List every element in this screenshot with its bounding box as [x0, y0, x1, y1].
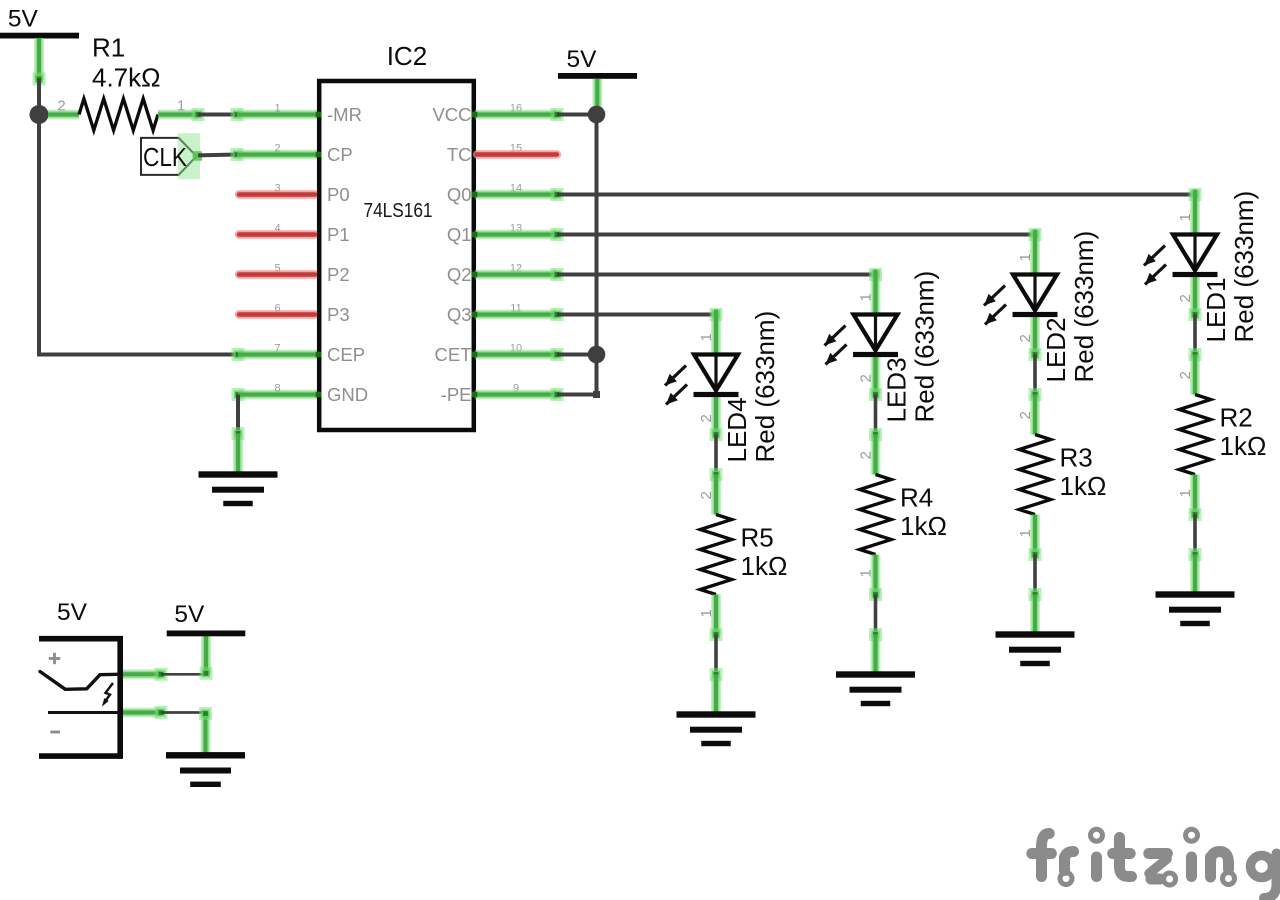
svg-text:GND: GND — [327, 384, 368, 405]
svg-text:P2: P2 — [327, 264, 350, 285]
svg-text:1: 1 — [698, 333, 715, 341]
svg-text:IC2: IC2 — [387, 41, 427, 71]
svg-text:4: 4 — [274, 223, 280, 235]
svg-text:5V: 5V — [567, 46, 598, 73]
svg-text:1: 1 — [177, 98, 185, 115]
svg-text:2: 2 — [57, 98, 65, 115]
svg-text:2: 2 — [1017, 411, 1034, 419]
svg-text:LED3: LED3 — [882, 357, 912, 422]
svg-text:6: 6 — [274, 303, 280, 315]
svg-text:R3: R3 — [1060, 443, 1093, 473]
svg-text:-PE: -PE — [441, 384, 472, 405]
svg-text:74LS161: 74LS161 — [364, 200, 433, 222]
svg-text:R4: R4 — [900, 483, 933, 513]
svg-text:7: 7 — [274, 343, 280, 355]
svg-text:-MR: -MR — [327, 104, 362, 125]
svg-text:LED2: LED2 — [1041, 317, 1071, 382]
svg-text:Q2: Q2 — [447, 264, 472, 285]
svg-text:Q3: Q3 — [447, 304, 472, 325]
svg-text:2: 2 — [274, 143, 280, 155]
svg-text:P1: P1 — [327, 224, 350, 245]
svg-text:3: 3 — [274, 183, 280, 195]
svg-text:5: 5 — [274, 263, 280, 275]
svg-text:8: 8 — [274, 383, 280, 395]
svg-text:1kΩ: 1kΩ — [1220, 431, 1267, 461]
svg-text:P0: P0 — [327, 184, 350, 205]
svg-text:CP: CP — [327, 144, 353, 165]
svg-text:TC: TC — [447, 144, 472, 165]
svg-text:2: 2 — [698, 491, 715, 499]
svg-text:1kΩ: 1kΩ — [900, 511, 947, 541]
svg-text:P3: P3 — [327, 304, 350, 325]
svg-text:1: 1 — [1177, 213, 1194, 221]
svg-text:R2: R2 — [1220, 403, 1253, 433]
svg-text:5V: 5V — [57, 599, 88, 626]
svg-text:CEP: CEP — [327, 344, 365, 365]
svg-text:1kΩ: 1kΩ — [741, 551, 788, 581]
svg-text:Q1: Q1 — [447, 224, 472, 245]
svg-text:2: 2 — [1017, 334, 1034, 342]
svg-text:1kΩ: 1kΩ — [1060, 471, 1107, 501]
svg-text:Red (633nm): Red (633nm) — [750, 311, 780, 463]
svg-text:2: 2 — [1177, 294, 1194, 302]
svg-text:Q0: Q0 — [447, 184, 472, 205]
svg-text:CLK: CLK — [143, 142, 188, 172]
svg-text:LED1: LED1 — [1201, 277, 1231, 342]
svg-text:2: 2 — [698, 414, 715, 422]
svg-text:CET: CET — [435, 344, 472, 365]
svg-text:VCC: VCC — [432, 104, 471, 125]
svg-text:2: 2 — [858, 451, 875, 459]
svg-text:1: 1 — [274, 103, 280, 115]
svg-text:Red (633nm): Red (633nm) — [1229, 191, 1259, 343]
svg-text:1: 1 — [1017, 253, 1034, 261]
svg-text:2: 2 — [1177, 371, 1194, 379]
svg-text:5V: 5V — [174, 601, 205, 628]
svg-text:LED4: LED4 — [722, 397, 752, 462]
svg-text:R1: R1 — [92, 33, 125, 63]
svg-text:Red (633nm): Red (633nm) — [910, 271, 940, 423]
svg-text:1: 1 — [858, 293, 875, 301]
svg-text:Red (633nm): Red (633nm) — [1069, 231, 1099, 383]
svg-text:2: 2 — [858, 374, 875, 382]
svg-text:4.7kΩ: 4.7kΩ — [92, 63, 161, 93]
svg-text:5V: 5V — [8, 6, 39, 33]
svg-text:R5: R5 — [741, 523, 774, 553]
